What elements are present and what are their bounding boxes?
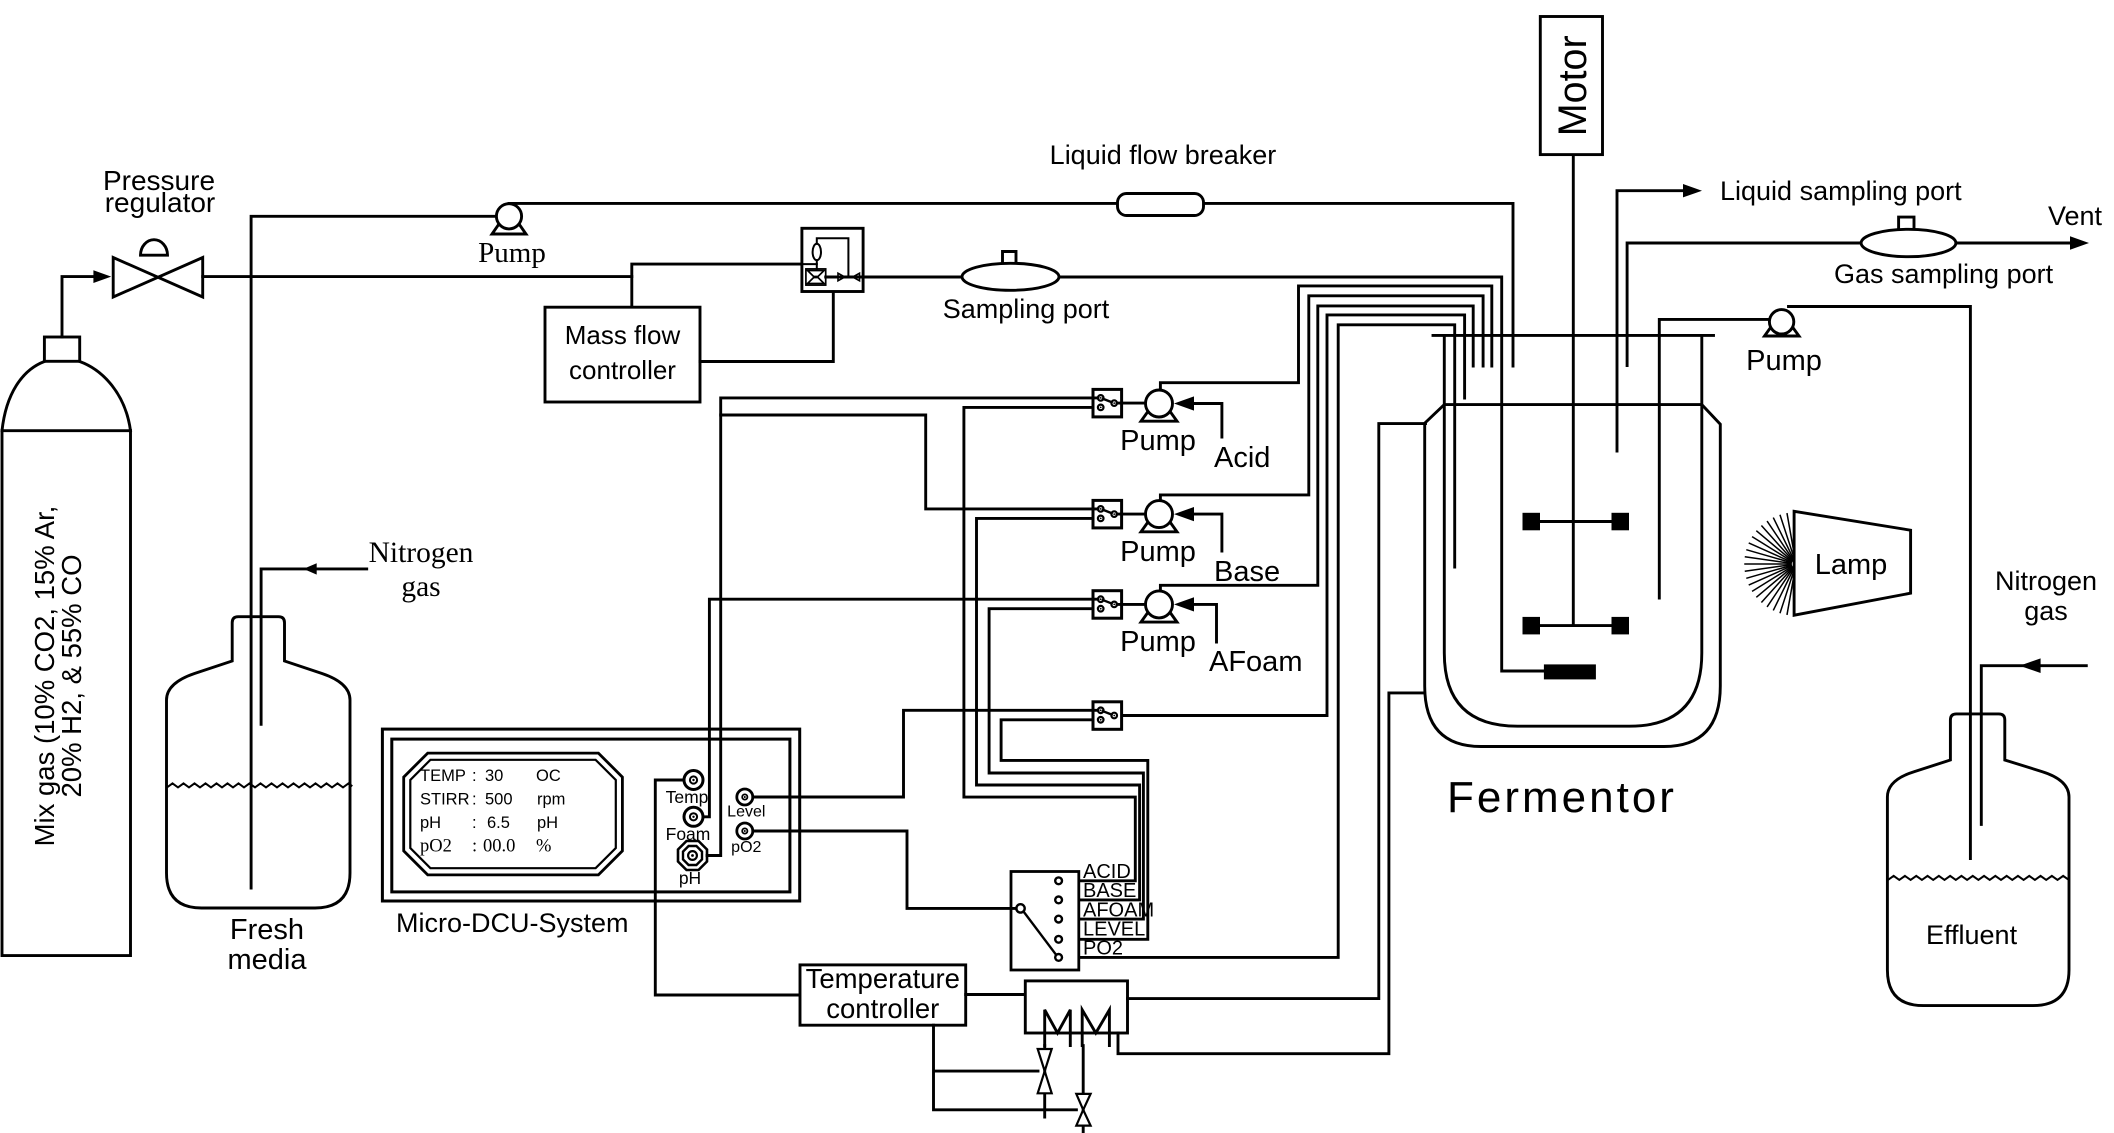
svg-text:Temp: Temp: [666, 787, 709, 807]
svg-text:pH: pH: [537, 814, 558, 832]
vent line: [1627, 243, 1862, 366]
valve V2 line: [1082, 1046, 1085, 1133]
svg-text:Pump: Pump: [1120, 536, 1196, 568]
cylinder cap: [44, 337, 79, 361]
wire S2 output to pump: [1117, 513, 1146, 516]
motor box: [1540, 17, 1602, 155]
wire S1 lower contact to selector ACID: [964, 407, 1135, 880]
valve box float ellipse: [813, 244, 821, 260]
wire jacket drain to HX: [1118, 693, 1425, 1054]
wire pump to effluent: [1789, 307, 1971, 859]
pump P5 body: [1769, 310, 1793, 334]
pressure regulator valve: [113, 240, 203, 297]
DCU display outer octagon: [404, 753, 623, 875]
selector contact ACID: [1055, 877, 1062, 884]
svg-text:Acid: Acid: [1214, 442, 1270, 474]
harvest suction tube: [1659, 319, 1770, 598]
svg-text:Nitrogen: Nitrogen: [369, 537, 474, 569]
display row pO2 (serif): [420, 837, 551, 857]
svg-text:pO2: pO2: [731, 839, 761, 856]
svg-text:Sampling port: Sampling port: [943, 294, 1110, 324]
wire gas sampling to vent: [1956, 242, 2072, 245]
agitator shaft: [1572, 155, 1575, 626]
fermentor vessel: [1444, 335, 1702, 726]
fresh media bottle: [167, 617, 351, 908]
svg-text:Micro-DCU-System: Micro-DCU-System: [396, 908, 629, 938]
svg-text:Fermentor: Fermentor: [1447, 773, 1677, 822]
svg-text:controller: controller: [826, 993, 939, 1024]
selector contact PO2: [1055, 954, 1062, 961]
wire Level to S4 upper contact: [753, 710, 1098, 797]
svg-text::: :: [472, 814, 477, 832]
svg-text:Level: Level: [727, 804, 765, 821]
acid dosing line (pump out to fermentor): [1160, 286, 1491, 391]
svg-text:pH: pH: [679, 868, 701, 888]
svg-text:media: media: [228, 944, 308, 976]
heat exchanger coil 1: [1045, 1010, 1071, 1046]
liquid sampling tube and arrow: [1617, 191, 1684, 451]
selector common terminal: [1016, 904, 1024, 912]
wire pH branch to S2 upper contact: [721, 415, 1098, 509]
valve V1 line: [1043, 1046, 1046, 1118]
valve box regulator body: [806, 269, 826, 285]
wire S4 lower contact to selector LEVEL: [1001, 720, 1148, 940]
connector Foam: [684, 807, 703, 826]
selector switch box: [1011, 872, 1079, 971]
arrow nitrogen right: [2020, 658, 2041, 673]
svg-text:Pump: Pump: [478, 237, 546, 269]
wire regulator to MFC jog: [203, 275, 632, 278]
wire Foam to S3 upper contact: [703, 599, 1098, 817]
arrow into base pump: [1174, 507, 1194, 521]
sampling port: [962, 252, 1059, 291]
arrow into acid pump: [1174, 396, 1194, 410]
svg-text:500: 500: [485, 791, 513, 809]
wire jog at MFC: [632, 264, 802, 307]
svg-text:6.5: 6.5: [487, 814, 510, 832]
svg-text:OC: OC: [536, 767, 561, 785]
svg-text::: :: [472, 791, 477, 809]
impeller upper: [1523, 513, 1630, 531]
connector pH: [678, 841, 707, 870]
svg-text:Mass flow: Mass flow: [565, 320, 681, 350]
valve box stem: [816, 260, 818, 269]
svg-text:gas: gas: [2024, 596, 2068, 626]
temperature controller box: [800, 965, 966, 1025]
switch box S4 (level): [1093, 702, 1122, 730]
pump P3 (base): [1141, 501, 1177, 532]
svg-text:Pump: Pump: [1120, 626, 1196, 658]
pump P1 (fresh media) base: [492, 210, 526, 235]
arrow into regulator: [93, 270, 111, 283]
display row TEMP: [420, 767, 561, 785]
valve box internal loop: [817, 238, 849, 276]
lamp body: [1794, 511, 1911, 615]
valve box needle valve: [838, 273, 860, 281]
wire S1 output to pump: [1117, 402, 1146, 405]
lamp rays: [1745, 514, 1795, 614]
switch box S1 (acid): [1093, 389, 1122, 417]
heat exchanger box: [1025, 981, 1127, 1033]
fermentor jacket: [1425, 405, 1721, 747]
selector contact LEVEL: [1055, 936, 1062, 943]
display row STIRR: [420, 791, 565, 809]
antifoam supply wire: [1194, 604, 1217, 642]
svg-text:Liquid sampling port: Liquid sampling port: [1720, 176, 1962, 206]
valve box inlet wire: [802, 263, 817, 265]
svg-text:Lamp: Lamp: [1815, 549, 1888, 581]
gas cylinder: [2, 362, 131, 956]
svg-text:Gas sampling port: Gas sampling port: [1834, 259, 2054, 289]
fresh media suction tube: [251, 216, 496, 888]
connector Temp: [684, 771, 703, 790]
wire pump to liquid flow breaker to fermentor: [509, 203, 1513, 366]
antifoam dosing line: [1160, 306, 1473, 591]
pump P2 (acid): [1141, 390, 1177, 421]
wire S3 output to pump: [1117, 603, 1146, 606]
svg-text:pO2: pO2: [420, 837, 452, 857]
wire cylinder to regulator: [62, 277, 96, 337]
arrow nitrogen left: [303, 563, 316, 574]
svg-text:20% H2, & 55% CO: 20% H2, & 55% CO: [56, 554, 87, 797]
switch box S3 (antifoam): [1093, 591, 1122, 619]
svg-text:PO2: PO2: [1083, 938, 1123, 960]
pO2 probe line: [1061, 325, 1454, 958]
selector lever: [1024, 912, 1056, 955]
DCU panel inner border: [392, 739, 790, 892]
level probe line: [1122, 315, 1465, 716]
wire HX to jacket supply: [1128, 424, 1426, 999]
fresh media liquid level wave: [167, 783, 352, 787]
wire Temp to temperature controller: [655, 780, 800, 995]
sparger: [1544, 664, 1596, 679]
svg-text:Base: Base: [1214, 556, 1280, 588]
wire pH to S1 upper contact: [707, 398, 1098, 856]
wire S2 lower contact to selector BASE: [977, 518, 1140, 900]
svg-text:00.0: 00.0: [483, 837, 515, 857]
wire S3 lower contact to selector AFOAM: [989, 609, 1143, 919]
svg-text:Liquid flow breaker: Liquid flow breaker: [1050, 140, 1277, 170]
acid supply wire: [1194, 404, 1222, 438]
svg-text:Motor: Motor: [1551, 35, 1595, 136]
valve V2: [1076, 1094, 1090, 1126]
nitrogen gas line (right): [1981, 666, 2086, 825]
wire MFC output to flow valve box: [700, 292, 833, 362]
switch box S2 (base): [1093, 500, 1122, 528]
liquid flow breaker: [1118, 194, 1204, 216]
arrow into antifoam pump: [1174, 597, 1194, 611]
svg-text:STIRR: STIRR: [420, 791, 470, 809]
pump P1 body: [496, 204, 521, 229]
arrow vent: [2070, 236, 2089, 249]
svg-text:Vent: Vent: [2048, 201, 2103, 231]
valve V1: [1038, 1049, 1052, 1093]
svg-text:Pump: Pump: [1120, 425, 1196, 457]
wire TC to valves: [934, 1025, 1077, 1110]
mass flow controller box: [545, 307, 700, 402]
wire valve box to sparger line: [826, 277, 1544, 671]
svg-text:Pump: Pump: [1746, 345, 1822, 377]
DCU display inner octagon: [410, 760, 616, 868]
selector contact AFOAM: [1055, 916, 1062, 923]
svg-text:%: %: [536, 837, 551, 857]
selector contact BASE: [1055, 897, 1062, 904]
gas sampling port: [1861, 217, 1956, 257]
base supply wire: [1194, 514, 1222, 551]
fermentor headplate: [1433, 334, 1714, 337]
svg-text:Effluent: Effluent: [1926, 920, 2018, 950]
pump P4 (antifoam): [1141, 591, 1177, 622]
effluent bottle: [1887, 714, 2069, 1006]
DCU panel outer border: [382, 729, 799, 901]
pump P5 (harvest) base: [1765, 312, 1800, 336]
connector Level: [737, 789, 753, 805]
svg-text:Fresh: Fresh: [230, 914, 304, 946]
svg-text:Temperature: Temperature: [806, 963, 960, 994]
connector pO2: [737, 823, 753, 839]
wire pO2 to selector common: [753, 831, 1016, 908]
svg-text:regulator: regulator: [105, 187, 216, 218]
svg-text:gas: gas: [401, 571, 440, 603]
arrow liquid sampling: [1683, 184, 1702, 197]
nitrogen gas feed tube (left): [261, 569, 367, 724]
wire TC to heat exchanger: [966, 993, 1026, 996]
impeller lower: [1523, 617, 1630, 635]
svg-text:TEMP: TEMP: [420, 767, 466, 785]
display row pH: [420, 814, 558, 832]
base dosing line: [1160, 296, 1483, 501]
svg-text:rpm: rpm: [537, 791, 565, 809]
heat exchanger coil 2: [1082, 1010, 1109, 1046]
svg-text:30: 30: [485, 767, 503, 785]
svg-text:Nitrogen: Nitrogen: [1995, 566, 2097, 596]
effluent liquid level wave: [1888, 876, 2069, 880]
svg-text:pH: pH: [420, 814, 441, 832]
svg-text::: :: [472, 837, 477, 857]
flow control valve box: [802, 228, 863, 291]
svg-text:controller: controller: [569, 355, 676, 385]
svg-text::: :: [472, 767, 477, 785]
svg-text:AFoam: AFoam: [1209, 646, 1302, 678]
